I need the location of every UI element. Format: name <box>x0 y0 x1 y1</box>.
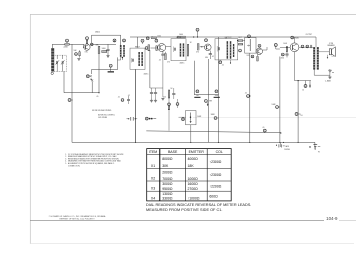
svg-text:30MF: 30MF <box>211 114 215 116</box>
svg-text:220K: 220K <box>64 47 69 49</box>
svg-text:CONNECTION.: CONNECTION. <box>68 165 81 167</box>
table header row <box>149 150 223 154</box>
svg-text:↑2200Ω: ↑2200Ω <box>209 185 221 189</box>
svg-text:OUTPUT: OUTPUT <box>225 37 232 39</box>
IF decoupling resistor <box>168 88 173 98</box>
emitter bypass caps <box>150 88 163 99</box>
detector diode M1 <box>237 40 245 45</box>
svg-text:BASE: BASE <box>168 150 178 154</box>
X2 collector wire <box>166 46 171 48</box>
svg-text:3.2: 3.2 <box>332 56 334 58</box>
svg-text:8000Ω: 8000Ω <box>162 157 173 161</box>
X2 emitter cap <box>161 51 164 97</box>
svg-text:.02: .02 <box>212 56 214 58</box>
battery terminal cap <box>309 145 320 150</box>
svg-text:.02: .02 <box>245 93 247 95</box>
svg-text:REPRINT OF SET No. 104, FOLDER: REPRINT OF SET No. 104, FOLDER 9 <box>60 219 96 221</box>
svg-text:2N412: 2N412 <box>95 31 100 33</box>
table grid <box>147 149 232 201</box>
svg-text:470: 470 <box>196 52 199 54</box>
AGC stub ref <box>196 28 199 37</box>
footer rule left of page number <box>30 220 324 222</box>
copyright line 1 <box>49 215 106 218</box>
svg-text:X2: X2 <box>151 177 155 181</box>
wire long drop left <box>71 44 73 142</box>
svg-text:DIAL READINGS INDICATE REVERSA: DIAL READINGS INDICATE REVERSAL OF METER… <box>146 203 251 207</box>
variable capacitor C1A <box>56 55 60 71</box>
wire X4 to T4 <box>299 46 313 48</box>
bias capacitor C2 <box>106 44 109 55</box>
X4 emitter wire <box>295 52 312 81</box>
svg-text:SW ON VOLUME CONTROL: SW ON VOLUME CONTROL <box>92 110 112 112</box>
page frame left rule <box>29 14 31 244</box>
AVC capacitor <box>205 100 212 107</box>
driver ref 2 <box>281 53 284 56</box>
svg-text:10: 10 <box>302 89 304 91</box>
transistor X2 <box>155 39 166 51</box>
decoupling ref <box>176 99 179 108</box>
on-off switch SW1 <box>127 69 138 142</box>
svg-text:.02: .02 <box>222 65 224 67</box>
wire rail drop at 218 <box>218 37 220 142</box>
svg-text:SW. OPENS: SW. OPENS <box>98 117 107 119</box>
emitter bias ref <box>304 81 310 88</box>
variable capacitor C1B <box>61 55 65 71</box>
T4b windings <box>227 41 235 59</box>
T4b top feed <box>225 37 227 39</box>
X2 base components <box>145 45 157 51</box>
det ref A <box>239 49 242 52</box>
svg-text:VOL: VOL <box>247 55 250 57</box>
oscillator coil T1 <box>120 45 125 57</box>
emitter cross cluster <box>86 75 92 81</box>
svg-text:1500: 1500 <box>157 36 161 38</box>
svg-text:OSC: OSC <box>85 52 89 54</box>
X4 ref and label <box>291 36 299 39</box>
svg-text:1600Ω: 1600Ω <box>188 182 199 186</box>
driver resistor pair <box>285 47 288 58</box>
B2 cap ref <box>263 129 266 133</box>
svg-text:10MF: 10MF <box>272 104 276 106</box>
wire battery terminal drop <box>314 142 316 149</box>
T4b tuning cap <box>217 46 219 52</box>
antenna coil L1 <box>51 48 54 74</box>
X3 emitter resistor <box>257 54 259 61</box>
wire-break marker <box>91 79 93 92</box>
svg-text:2700Ω: 2700Ω <box>188 187 199 191</box>
svg-text:PHONE: PHONE <box>284 149 290 151</box>
svg-text:600Ω: 600Ω <box>209 194 218 198</box>
junction dot <box>98 92 99 93</box>
wire out stage drop <box>297 81 299 143</box>
volume control pot <box>247 39 250 51</box>
X1 ref circle <box>86 37 89 41</box>
rail resistor R5 <box>151 36 161 39</box>
battery plug ref <box>179 117 186 121</box>
svg-text:.05: .05 <box>159 60 161 62</box>
antenna-to-base wire <box>52 43 84 45</box>
X3 ref circle <box>258 44 261 47</box>
svg-text:.01: .01 <box>118 97 120 99</box>
output ground label <box>325 80 331 83</box>
svg-text:3300Ω: 3300Ω <box>162 197 173 201</box>
X2 emitter resistor <box>165 52 167 60</box>
tuning gang box (dashed) <box>54 55 67 71</box>
svg-text:COL: COL <box>216 150 223 154</box>
svg-text:456KC: 456KC <box>180 62 186 64</box>
X1 base ref <box>91 43 94 46</box>
transistor X3 <box>256 48 262 54</box>
note text MEASURED FROM <box>146 208 222 212</box>
junction dot rail 194 <box>193 36 194 37</box>
faint horizontal guide line <box>193 117 356 119</box>
svg-text:7000Ω: 7000Ω <box>162 177 173 181</box>
svg-text:9500Ω: 9500Ω <box>162 187 173 191</box>
footer rule right of page number <box>339 220 356 222</box>
T4 bottom wire <box>314 70 330 76</box>
svg-text:2000Ω: 2000Ω <box>162 171 173 175</box>
T3 side resistor <box>187 44 189 56</box>
svg-text:1ST IF: 1ST IF <box>176 37 181 39</box>
interstage refs <box>301 45 312 48</box>
resistor R1 on antenna wire <box>64 39 70 48</box>
T2 windings <box>138 52 143 66</box>
speaker return dot <box>327 55 328 59</box>
oscillator top wire <box>92 35 121 45</box>
svg-text:4" PM: 4" PM <box>329 43 334 45</box>
page frame top rule <box>30 13 356 15</box>
osc pad capacitor <box>108 64 114 72</box>
bias wire <box>90 43 116 45</box>
wire T1 drop <box>135 69 137 142</box>
B1 drop ref <box>214 117 218 120</box>
copyright line 2 <box>60 219 96 221</box>
wire IF2 drop <box>208 59 210 142</box>
T2 ref circle <box>141 39 144 44</box>
svg-text:104-9: 104-9 <box>326 216 338 221</box>
det ref B <box>251 55 254 58</box>
T3 tuning cap <box>173 47 175 53</box>
svg-text:M: M <box>182 119 184 121</box>
speaker wire <box>319 51 330 53</box>
T4 top feed <box>315 37 317 47</box>
output electrolytic C14 <box>328 69 333 75</box>
svg-text:1000: 1000 <box>179 34 183 36</box>
svg-text:3000Ω: 3000Ω <box>162 182 173 186</box>
output transformer T4 <box>313 47 319 70</box>
secondary bus <box>146 131 280 133</box>
svg-text:X1: X1 <box>151 164 155 168</box>
left cluster cap <box>121 96 130 104</box>
transistor X4 <box>290 43 299 52</box>
X1 base junction dot <box>83 44 84 47</box>
T2 tuning cap <box>132 58 134 63</box>
X3if emitter parts <box>209 51 214 59</box>
oscillator coil terminal <box>122 57 123 60</box>
bias resistor R3 (boxed) <box>102 48 107 52</box>
svg-text:.05: .05 <box>262 127 264 129</box>
X4 base wire <box>280 47 290 48</box>
IF transformer T2 box <box>130 46 145 69</box>
AVC ref 1 <box>194 90 200 98</box>
junction dot B2 <box>280 132 281 133</box>
battery plug box <box>186 111 197 143</box>
transistor X3if <box>205 44 212 51</box>
svg-text:30K: 30K <box>162 164 169 168</box>
svg-text:680: 680 <box>205 57 208 59</box>
svg-text:X3: X3 <box>151 187 155 191</box>
svg-text:.02: .02 <box>128 95 130 97</box>
oscillator coil refs <box>113 39 125 42</box>
svg-text:5600: 5600 <box>102 48 106 50</box>
misc value labels <box>85 34 334 153</box>
earphone jack J1 <box>276 142 289 147</box>
T3 windings <box>180 43 185 56</box>
wire bias drop <box>98 54 100 93</box>
svg-text:456KC: 456KC <box>144 73 150 75</box>
svg-text:10K: 10K <box>74 50 78 52</box>
svg-text:50MF: 50MF <box>197 116 201 118</box>
det drop ref <box>247 95 251 98</box>
svg-text:2N241: 2N241 <box>294 37 299 39</box>
bias resistor R2 <box>96 44 100 53</box>
driver coupling ref <box>274 44 280 49</box>
svg-text:1000Ω: 1000Ω <box>188 177 199 181</box>
AVC ref 2 <box>214 90 220 98</box>
X1 collector resistor <box>86 40 88 44</box>
svg-text:JACK: JACK <box>285 145 289 148</box>
wire gang to junction <box>64 72 99 93</box>
wire AVC left drop <box>193 61 195 95</box>
X3 out wire <box>263 47 268 50</box>
svg-text:↑2300Ω: ↑2300Ω <box>209 173 221 177</box>
driver drop ref <box>276 106 280 109</box>
bypass grounds <box>150 99 157 103</box>
battery connector <box>145 117 156 120</box>
IF decoupling cap <box>172 88 175 99</box>
decoupling dropper <box>168 98 171 131</box>
wire det drop <box>249 53 251 142</box>
X4 collector wire <box>294 37 296 43</box>
X2 emitter ground <box>161 98 164 100</box>
wire driver drop <box>279 57 281 143</box>
svg-text:X4: X4 <box>151 196 155 200</box>
antenna coil top lead <box>52 44 54 48</box>
X3if ref circle <box>205 39 208 42</box>
IF transformer T3 box <box>171 37 186 61</box>
T2 top feed <box>137 37 139 48</box>
transistor X1 <box>84 31 100 50</box>
svg-text:OUTPUT: OUTPUT <box>306 34 313 36</box>
note text DIAL READINGS <box>146 203 251 207</box>
page frame bottom rule <box>30 243 354 245</box>
svg-text:EMITTER: EMITTER <box>189 150 205 154</box>
junction dot rail 152 <box>152 36 153 37</box>
osc coil bottom wire <box>118 57 121 60</box>
B+ top supply rail <box>130 36 316 38</box>
volume control box <box>245 35 256 53</box>
left bypass ref <box>68 99 73 102</box>
svg-text:5.: 5. <box>65 163 67 165</box>
speaker SP1 <box>327 43 335 56</box>
page number 104-9 <box>326 216 338 221</box>
svg-text:9V: 9V <box>318 151 321 153</box>
wire rail drop at 152 <box>149 50 151 88</box>
numbered service notes block <box>65 153 124 167</box>
IF transformer T4b box <box>215 37 238 60</box>
svg-text:ITEM: ITEM <box>149 150 157 154</box>
svg-text:1300Ω: 1300Ω <box>162 192 173 196</box>
svg-text:1K: 1K <box>190 42 193 44</box>
bottom common bus <box>72 142 315 143</box>
output ground <box>328 75 331 79</box>
X1 emitter network <box>74 50 81 60</box>
bias ground <box>106 56 109 58</box>
osc feedback wire <box>91 57 117 74</box>
svg-text:220: 220 <box>163 97 166 99</box>
rail ref <box>146 37 149 40</box>
svg-text:4700: 4700 <box>281 58 285 60</box>
svg-text:↑1000Ω: ↑1000Ω <box>188 197 200 201</box>
AVC bus <box>194 94 218 96</box>
svg-text:DET: DET <box>239 37 242 39</box>
table body values <box>151 157 222 201</box>
svg-text:100K: 100K <box>283 43 288 45</box>
X3if base network <box>196 44 204 54</box>
T4b bottom ref <box>219 60 231 64</box>
svg-text:MEASURED FROM POSITIVE SIDE OF: MEASURED FROM POSITIVE SIDE OF C1. <box>146 208 222 212</box>
switch label <box>92 110 115 119</box>
svg-text:18K: 18K <box>188 164 195 168</box>
svg-text:TH: TH <box>300 115 303 117</box>
svg-text:4000Ω: 4000Ω <box>188 157 199 161</box>
svg-text:C- BIAS: C- BIAS <box>325 80 331 83</box>
svg-text:.05: .05 <box>96 96 98 98</box>
rail resistor R6 <box>177 34 185 38</box>
svg-text:↑2300Ω: ↑2300Ω <box>209 160 221 164</box>
svg-text:470: 470 <box>167 61 170 63</box>
svg-text:1K: 1K <box>171 88 174 90</box>
thermistor ref <box>295 113 300 116</box>
svg-text:AT MIN VOL CONTROL: AT MIN VOL CONTROL <box>98 114 115 117</box>
X2 base hatch <box>156 46 158 51</box>
